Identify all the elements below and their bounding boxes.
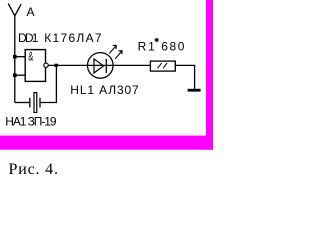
LED HL1 emission arrow 1 (109, 45, 116, 53)
LED HL1 cathode bar (105, 59, 107, 73)
wire input 2 stub (15, 74, 25, 76)
svg-text:К176ЛА7: К176ЛА7 (44, 31, 102, 45)
wire gate output to LED and resistor (48, 64, 150, 66)
LED HL1 emission arrow 2 (115, 51, 122, 59)
svg-text:Рис. 4.: Рис. 4. (9, 161, 59, 178)
resistor R1 body (150, 61, 175, 71)
node output junction (55, 64, 58, 67)
antenna W1 (8, 4, 21, 16)
svg-text:НА1 ЗП-19: НА1 ЗП-19 (5, 115, 57, 129)
svg-text:DD1: DD1 (18, 31, 39, 45)
LED HL1 triangle (94, 59, 104, 73)
svg-text:R1: R1 (138, 40, 156, 54)
piezo emitter HA1 right plate (39, 98, 41, 108)
wire output junction down to piezo (40, 65, 56, 102)
svg-text:HL1 АЛ307: HL1 АЛ307 (70, 83, 139, 97)
node junction input 1 (13, 55, 17, 59)
svg-text:680: 680 (161, 40, 185, 54)
svg-text:&: & (28, 49, 33, 63)
resistor R1 power-rating slashes (158, 63, 167, 68)
magenta bottom bar (0, 136, 213, 150)
wire antenna down to bottom rail (14, 15, 16, 102)
wire resistor to ground (175, 65, 194, 89)
label asterisk (155, 38, 159, 43)
logic gate DD1.1 body (25, 50, 45, 82)
node junction input 2 (13, 73, 17, 77)
wire bottom rail left to piezo (15, 102, 30, 104)
piezo emitter HA1 crystal element (34, 93, 37, 113)
LED HL1 circle (88, 53, 114, 79)
svg-text:А: А (27, 5, 35, 19)
ground bar (188, 89, 201, 92)
inversion bubble at gate output (44, 63, 48, 67)
wire input 1 stub (15, 56, 25, 58)
magenta right border strip (206, 0, 213, 150)
piezo emitter HA1 left plate (29, 98, 31, 108)
